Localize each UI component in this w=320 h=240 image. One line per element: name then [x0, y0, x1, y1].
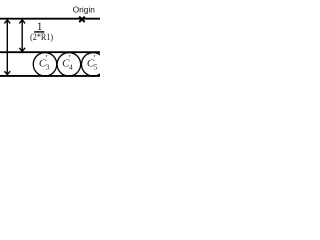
- svg-text:5: 5: [94, 63, 98, 72]
- svg-text:Origin: Origin: [73, 4, 96, 14]
- svg-text:3: 3: [46, 63, 50, 72]
- circle C'5: [81, 53, 105, 77]
- wire channel top line: [0, 51, 100, 53]
- label C'4: [62, 53, 73, 71]
- svg-text:(2*R1): (2*R1): [30, 32, 53, 43]
- wire channel bottom line: [0, 75, 100, 77]
- background: [0, 0, 100, 100]
- wire top reference line: [0, 18, 100, 20]
- svg-text:4: 4: [69, 63, 73, 72]
- label C'3: [39, 53, 50, 71]
- fraction bar: [34, 31, 44, 33]
- circle C'4: [57, 53, 81, 77]
- dimension arrow tall (top line to bottom line): [4, 20, 10, 75]
- label C'5: [87, 53, 98, 71]
- circle C'3: [33, 53, 57, 77]
- dimension arrow short (top line to channel top): [19, 20, 25, 51]
- node Origin x-marker: [79, 17, 85, 23]
